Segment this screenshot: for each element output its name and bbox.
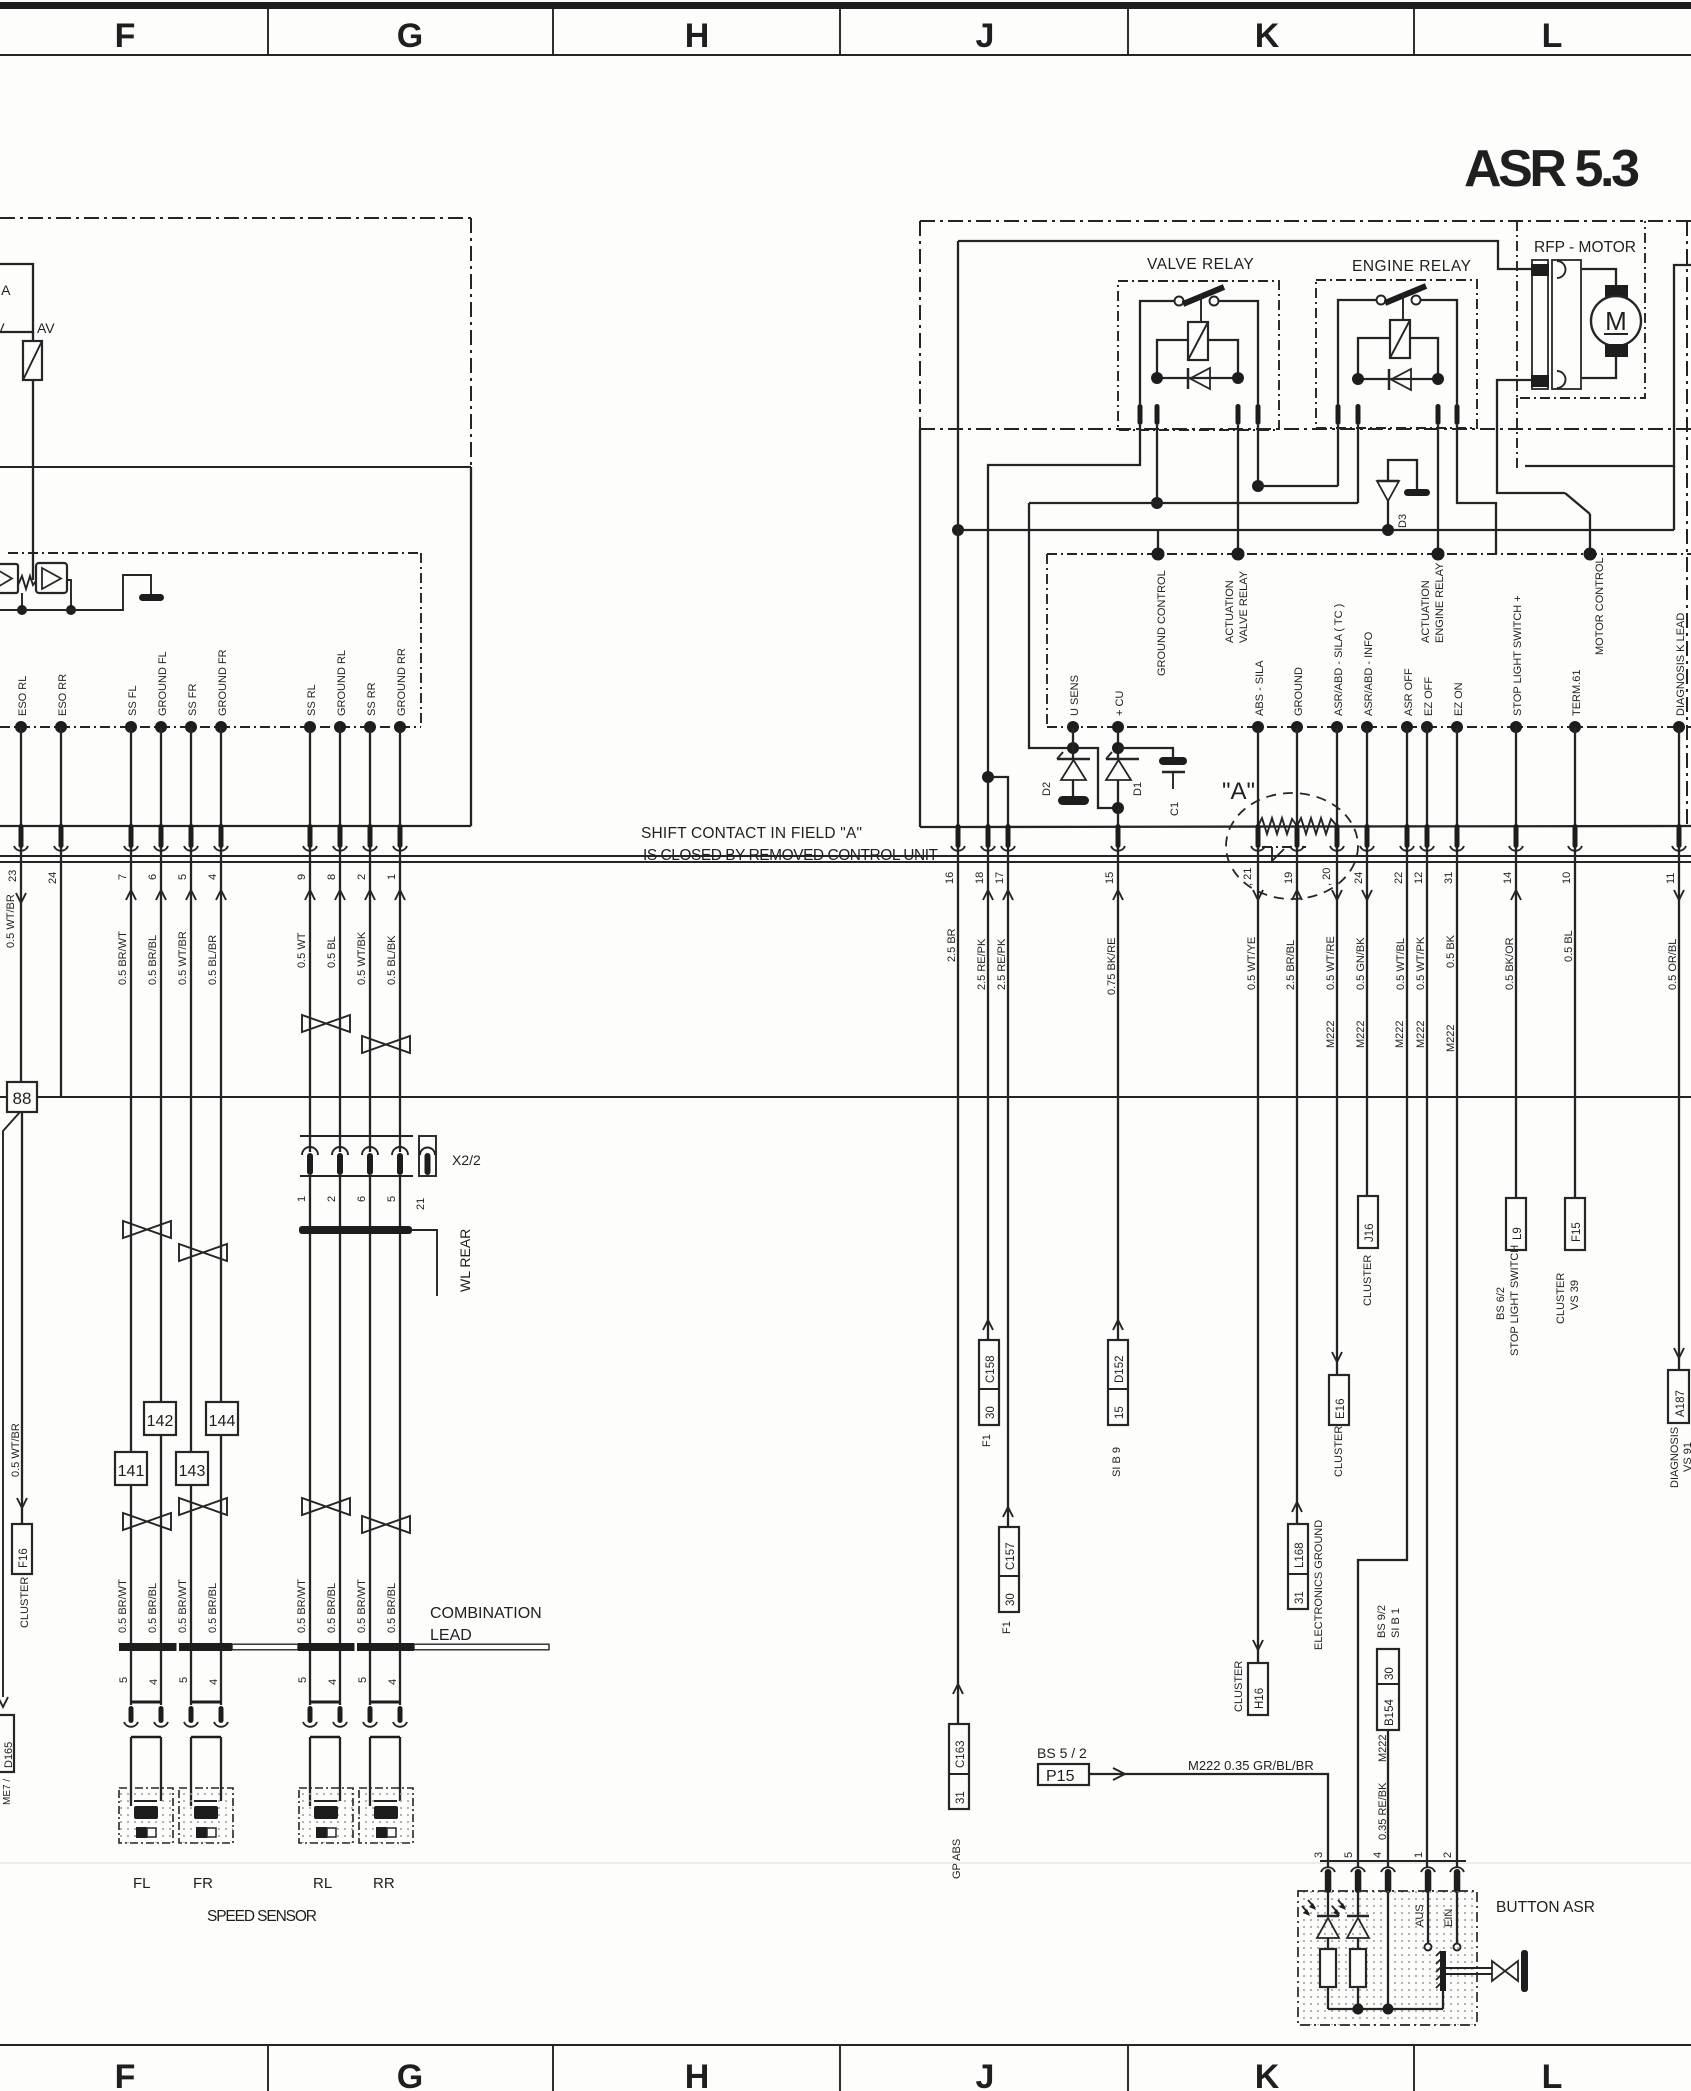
outer dash-dot continuation below RFP: [1516, 398, 1518, 472]
wire 20: [1336, 727, 1338, 848]
connector H16: [1253, 1640, 1263, 1650]
svg-text:15: 15: [1104, 872, 1116, 884]
svg-text:5: 5: [1343, 1852, 1355, 1858]
svg-text:VALVE RELAY: VALVE RELAY: [1238, 570, 1250, 643]
node pins 18/17 join: [982, 771, 994, 783]
connector C157: [1003, 1507, 1013, 1517]
wire to pin 15: [1117, 808, 1119, 848]
svg-text:143: 143: [179, 1463, 206, 1480]
D3 bottom lead: [1387, 501, 1389, 530]
amp1 output lead: [21, 593, 23, 610]
svg-text:C157: C157: [1005, 1543, 1017, 1571]
pin 20: [1335, 824, 1340, 848]
svg-text:0.5 GN/BK: 0.5 GN/BK: [1355, 937, 1367, 990]
engine relay switch contact left: [1377, 296, 1386, 305]
svg-text:0.5 BK: 0.5 BK: [1445, 934, 1457, 968]
amp 2 triangle: [42, 568, 61, 589]
node DIAGNOSIS: [1673, 721, 1685, 733]
node valve-engine link: [1252, 480, 1264, 492]
svg-text:SI B 1: SI B 1: [1390, 1608, 1402, 1638]
node GROUND RR: [394, 721, 406, 733]
wire 24: [60, 727, 62, 848]
valve relay diode line: [1157, 377, 1238, 379]
svg-text:31: 31: [1443, 872, 1455, 884]
svg-text:8: 8: [326, 874, 338, 880]
connector F15: [1565, 1198, 1585, 1250]
wire P15 to button: [1089, 1774, 1328, 1868]
valve pin1 feed: [988, 425, 1140, 848]
motor return wire: [1497, 380, 1565, 493]
wire 6: [160, 727, 162, 848]
connector X2/2 rail bottom: [300, 1175, 413, 1177]
node SS FR: [185, 721, 197, 733]
svg-text:4: 4: [148, 1679, 160, 1685]
node bus supply: [952, 524, 964, 536]
svg-text:CLUSTER: CLUSTER: [1555, 1273, 1567, 1324]
RFP motor dash-dot box: [1517, 221, 1645, 398]
svg-text:5: 5: [386, 1196, 398, 1202]
speed sensor FR: [179, 1788, 233, 1843]
svg-text:F: F: [115, 17, 136, 55]
wire 14: [1515, 727, 1517, 848]
pin 14: [1514, 824, 1519, 848]
wire SI B9 D152: [1117, 848, 1119, 1340]
header grid letters F G H J K L: [115, 17, 1563, 55]
connector X2/2 rail top: [300, 1135, 413, 1137]
svg-text:141: 141: [118, 1463, 145, 1480]
svg-text:SS FR: SS FR: [187, 684, 199, 716]
svg-text:BUTTON ASR: BUTTON ASR: [1496, 1899, 1595, 1916]
pin 11: [1677, 824, 1682, 848]
svg-text:EZ OFF: EZ OFF: [1423, 677, 1435, 716]
wire diagnosis: [1678, 848, 1680, 1369]
svg-text:SS RR: SS RR: [366, 682, 378, 716]
switch toggle bar: [1440, 1951, 1446, 1991]
svg-text:STOP LIGHT SWITCH: STOP LIGHT SWITCH: [1509, 1245, 1521, 1356]
wire motor control to boundary: [1589, 514, 1591, 554]
switch contact AUS: [1425, 1944, 1432, 1951]
engine pin3 wire: [1437, 425, 1439, 554]
svg-text:F15: F15: [1571, 1222, 1583, 1242]
valve relay coil leads: [1157, 340, 1188, 378]
D2 lead to ground: [1072, 780, 1074, 797]
internal ground bar: [139, 594, 164, 601]
node ACTUATION ENGINE RELAY: [1432, 548, 1445, 561]
svg-text:A187: A187: [1675, 1390, 1687, 1417]
engine relay pins: [1336, 404, 1341, 425]
BUTTON ASR housing: [1298, 1891, 1477, 2025]
svg-text:4: 4: [327, 1679, 339, 1685]
footer band top rule: [0, 2044, 1691, 2046]
svg-text:EIN: EIN: [1443, 1909, 1455, 1927]
border frame top thick rule: [0, 2, 1691, 9]
svg-text:2: 2: [356, 874, 368, 880]
button connector rail: [1320, 1860, 1466, 1862]
wire 10: [1574, 727, 1576, 848]
X2/2 pin numbers: [296, 1196, 427, 1210]
U SENS stub: [1072, 727, 1074, 759]
svg-text:SS RL: SS RL: [306, 684, 318, 716]
WL REAR lead: [412, 1230, 437, 1296]
button socket arcs: [1321, 1867, 1464, 1872]
X2/2 socket arcs: [302, 1147, 408, 1155]
svg-text:WL REAR: WL REAR: [457, 1229, 473, 1292]
combination lead open sleeve 2: [414, 1644, 549, 1650]
connector L9: [1506, 1198, 1526, 1250]
motor M1 top lead: [1581, 269, 1616, 286]
ground control branch down: [1029, 503, 1118, 808]
RFP connector pad bottom: [1531, 375, 1549, 387]
svg-text:K: K: [1255, 2058, 1280, 2091]
long horizontal bus line: [0, 1096, 1691, 1098]
svg-text:88: 88: [13, 1089, 32, 1108]
svg-text:2: 2: [1442, 1852, 1454, 1858]
node bus supply pin4: [1383, 2004, 1394, 2015]
svg-text:0.5 WT/BR: 0.5 WT/BR: [5, 894, 17, 948]
svg-text:ME7 /: ME7 /: [2, 1779, 13, 1805]
push knob bar: [1521, 1950, 1528, 1992]
svg-text:GP ABS: GP ABS: [951, 1839, 963, 1879]
svg-text:0.5 WT/BR: 0.5 WT/BR: [177, 931, 189, 985]
svg-text:0.5 BR/BL: 0.5 BR/BL: [207, 1583, 219, 1633]
svg-text:HA: HA: [0, 282, 11, 298]
svg-text:11: 11: [1665, 873, 1677, 884]
svg-text:K: K: [1255, 17, 1280, 55]
wire F1 C158: [987, 848, 989, 1340]
svg-text:J: J: [976, 17, 995, 55]
wires pin dots to connector: [21, 727, 400, 848]
pin 10: [1573, 824, 1578, 848]
twisted pair mark RL upper: [302, 1015, 350, 1032]
wire 88 to F16: [21, 1112, 23, 1524]
outer dash-dot top edge: [920, 220, 1691, 222]
connector A187: [1674, 1348, 1684, 1358]
speed sensor FL: [119, 1788, 173, 1843]
terminal 88 box: [7, 1082, 37, 1112]
svg-text:E16: E16: [1335, 1399, 1347, 1419]
pin 5: [189, 824, 194, 848]
node GROUND: [1291, 721, 1303, 733]
svg-text:D2: D2: [1041, 782, 1053, 796]
svg-text:4: 4: [207, 874, 219, 880]
svg-text:P15: P15: [1046, 1768, 1075, 1785]
svg-text:1: 1: [386, 874, 398, 880]
svg-text:GROUND CONTROL: GROUND CONTROL: [1156, 570, 1168, 676]
svg-text:30: 30: [1005, 1593, 1017, 1606]
svg-text:0.5 WT/BL: 0.5 WT/BL: [1395, 938, 1407, 990]
svg-text:SPEED SENSOR: SPEED SENSOR: [207, 1908, 317, 1925]
node bus R2: [1353, 2004, 1364, 2015]
svg-text:0.5 WT: 0.5 WT: [296, 932, 308, 968]
wire 24 stub: [60, 848, 62, 1097]
svg-text:COMBINATION: COMBINATION: [430, 1605, 542, 1622]
header band bottom rule: [0, 54, 1691, 56]
svg-text:0.75 BK/RE: 0.75 BK/RE: [1106, 938, 1118, 995]
supply wire to pin 16: [957, 241, 959, 848]
shift contact plunger: [1262, 846, 1306, 848]
capacitor C1 feed: [1118, 748, 1173, 758]
AV valve component: [23, 341, 42, 380]
wires into sensors: [131, 1737, 400, 1806]
inner dash-dot vertical corner: [420, 553, 422, 727]
branch diagonal from 88: [3, 1112, 20, 1697]
svg-text:0.5 BR/WT: 0.5 BR/WT: [177, 1579, 189, 1633]
engine relay switch blade: [1385, 286, 1426, 303]
svg-text:VS 91: VS 91: [1682, 1442, 1691, 1472]
svg-text:23: 23: [7, 870, 19, 882]
pin 9: [308, 824, 313, 848]
main bus wire y530: [958, 529, 1674, 531]
svg-text:31: 31: [955, 1791, 967, 1804]
motor M1 terminal bottom: [1605, 344, 1628, 357]
inner dash-dot pin line: [1047, 726, 1691, 728]
supply line to RFP: [958, 241, 1532, 269]
splice 142: [144, 1402, 176, 1435]
node D3 bus: [1382, 524, 1394, 536]
sensor box A (cut at page edge): [0, 264, 33, 332]
svg-text:CLUSTER: CLUSTER: [1362, 1255, 1374, 1306]
node ABS-SILA: [1252, 721, 1264, 733]
right wire colour labels: [946, 928, 1679, 995]
outer dash-dot left edge: [919, 221, 921, 429]
outer dash-dot right edge: [1686, 221, 1688, 826]
wire TERM61: [1574, 848, 1576, 1198]
node ASR/ABD-SILA: [1331, 721, 1343, 733]
pin 18: [986, 824, 991, 848]
left pin net dots on dash-dot line: [15, 721, 406, 733]
engine pin1 wire: [1337, 425, 1339, 486]
cluster F16 box: [12, 1524, 32, 1574]
svg-text:H16: H16: [1254, 1688, 1266, 1709]
connector L168: [1292, 1502, 1302, 1512]
svg-text:ESO RR: ESO RR: [57, 674, 69, 716]
wire 0.5 WT RL: [309, 848, 311, 1152]
node ACTUATION VALVE RELAY: [1232, 548, 1245, 561]
pin 17: [1006, 824, 1011, 848]
left boundary wire solid: [919, 429, 921, 827]
diode D3 top lead to ground: [1388, 460, 1417, 490]
svg-text:FR: FR: [193, 1875, 213, 1892]
upper tier labels: [1156, 557, 1606, 676]
svg-text:D1: D1: [1132, 782, 1144, 796]
capacitor C1: [1159, 757, 1187, 765]
resistor R2: [1350, 1949, 1366, 1987]
wire 19: [1296, 727, 1298, 848]
svg-text:DIAGNOSIS K LEAD: DIAGNOSIS K LEAD: [1675, 613, 1687, 716]
svg-text:, 21: , 21: [1242, 868, 1254, 886]
node ESO RL: [15, 721, 27, 733]
svg-text:0.5 WT/YE: 0.5 WT/YE: [1246, 937, 1258, 990]
svg-text:12: 12: [1413, 872, 1425, 884]
pin 15: [1116, 824, 1121, 848]
node amp2: [66, 605, 76, 615]
control unit solid box bottom edge: [0, 825, 471, 827]
svg-text:0.5 BL/BR: 0.5 BL/BR: [207, 935, 219, 985]
svg-text:30: 30: [985, 1406, 997, 1419]
svg-text:G: G: [397, 2058, 423, 2091]
wire F1 C157: [1007, 848, 1009, 1527]
svg-text:L: L: [1542, 2058, 1563, 2091]
control unit solid box right edge: [470, 467, 472, 826]
wires into button: [1328, 1892, 1457, 2009]
pin 6: [159, 824, 164, 848]
svg-text:ASR/ABD - INFO: ASR/ABD - INFO: [1363, 631, 1375, 716]
svg-text:AV: AV: [37, 320, 55, 336]
RFP connector body left: [1532, 260, 1548, 389]
svg-text:17: 17: [994, 872, 1006, 884]
pin 22: [1405, 824, 1410, 848]
svg-text:F1: F1: [981, 1434, 993, 1447]
control unit outer dash-dot box top edge: [0, 217, 471, 219]
amp2 output lead: [67, 580, 71, 610]
right pin numbers: [944, 868, 1677, 886]
wire 21: [1257, 727, 1259, 848]
svg-text:ASR/ABD - SILA ( TC ): ASR/ABD - SILA ( TC ): [1333, 604, 1345, 716]
wires combination lead to sensor connectors: [131, 1651, 400, 1705]
wire electronics ground: [1296, 848, 1298, 1524]
zigzag link: [18, 576, 36, 589]
pin 24: [59, 824, 64, 848]
engine pin2 wire: [1357, 425, 1359, 503]
splice 141: [115, 1452, 147, 1485]
valve relay switch wires: [1140, 301, 1175, 404]
button internal bus: [1328, 2008, 1443, 2010]
svg-text:EZ ON: EZ ON: [1453, 682, 1465, 716]
faint scan artifact line: [0, 1862, 1691, 1864]
motor M1 body: [1591, 296, 1641, 346]
wire 2: [369, 727, 371, 848]
node TERM.61: [1569, 721, 1581, 733]
svg-text:0.5 BL: 0.5 BL: [1563, 930, 1575, 962]
combination lead shield bar right: [298, 1643, 414, 1651]
svg-text:22: 22: [1393, 872, 1405, 884]
pin 31: [1455, 824, 1460, 848]
+CU stub: [1117, 727, 1119, 759]
pin 24r: [1365, 824, 1370, 848]
wire cluster J16: [1366, 848, 1368, 1196]
bus corner up at right: [1673, 466, 1675, 530]
RFP connector pad top: [1531, 264, 1549, 276]
arrows up sensor wires: [126, 890, 405, 900]
wire B154 to button: [1387, 1730, 1389, 1868]
svg-text:0.5 BR/WT: 0.5 BR/WT: [117, 1579, 129, 1633]
wire 5: [190, 727, 192, 848]
svg-text:ENGINE RELAY: ENGINE RELAY: [1434, 562, 1446, 643]
node U SENS: [1067, 721, 1079, 733]
svg-text:0.5 BR/WT: 0.5 BR/WT: [356, 1579, 368, 1633]
wire 0.5 WT/BK RR: [369, 848, 371, 1152]
svg-text:M222: M222: [1355, 1020, 1367, 1048]
svg-text:M222 0.35 GR/BL/BR: M222 0.35 GR/BL/BR: [1188, 1758, 1314, 1773]
engine relay coil leads: [1358, 338, 1390, 379]
svg-text:D152: D152: [1114, 1356, 1126, 1384]
svg-text:VS 39: VS 39: [1569, 1280, 1581, 1310]
svg-text:4: 4: [1372, 1852, 1384, 1858]
link wire y486: [1258, 485, 1338, 487]
pin 19: [1295, 824, 1300, 848]
svg-text:7: 7: [117, 874, 129, 880]
node +CU tap: [1112, 742, 1124, 754]
svg-text:FL: FL: [133, 1875, 151, 1892]
wire 1: [399, 727, 401, 848]
node MOTOR CONTROL: [1584, 548, 1597, 561]
svg-text:0.5 BR/BL: 0.5 BR/BL: [147, 1583, 159, 1633]
motor M1 terminal top: [1605, 285, 1628, 298]
svg-text:0.5 WT/PK: 0.5 WT/PK: [1415, 936, 1427, 990]
node ESO RR: [55, 721, 67, 733]
wire 24r: [1366, 727, 1368, 848]
pin 2: [368, 824, 373, 848]
node SS RL: [304, 721, 316, 733]
svg-text:F16: F16: [18, 1548, 30, 1568]
control unit solid box top edge: [0, 466, 471, 468]
svg-text:0.5 BR/BL: 0.5 BR/BL: [386, 1583, 398, 1633]
svg-text:0.5 BR/WT: 0.5 BR/WT: [296, 1579, 308, 1633]
svg-text:0.5 BL: 0.5 BL: [326, 936, 338, 968]
wire 0.5 BR/WT FL: [130, 848, 132, 1643]
dash-dot mid horizontal: [920, 428, 1691, 430]
svg-text:2.5 RE/PK: 2.5 RE/PK: [996, 938, 1008, 990]
svg-text:BS 9/2: BS 9/2: [1376, 1605, 1388, 1638]
svg-text:144: 144: [209, 1413, 236, 1430]
left wire colour labels: [5, 894, 398, 985]
wire EZ ON to button: [1456, 848, 1458, 1868]
svg-text:0.5 BR/BL: 0.5 BR/BL: [147, 935, 159, 985]
coil control bus y503: [1029, 502, 1358, 504]
motor M1 bottom lead: [1581, 357, 1616, 378]
svg-text:M222: M222: [1415, 1020, 1427, 1048]
D1 lead: [1117, 780, 1119, 808]
wire 22: [1406, 727, 1408, 848]
diode D1: [1106, 758, 1139, 761]
svg-text:31: 31: [1294, 1591, 1306, 1604]
svg-text:0.5 WT/RE: 0.5 WT/RE: [1325, 936, 1337, 990]
valve relay pins: [1138, 404, 1143, 425]
shift contact spring 19-20: [1297, 818, 1337, 834]
twisted pair mark FR low: [179, 1498, 227, 1515]
svg-text:F: F: [115, 2058, 136, 2091]
switch contact EIN: [1454, 1944, 1461, 1951]
node SS RR: [364, 721, 376, 733]
connector ME7 D165 box (clipped): [0, 1715, 14, 1772]
header cell separators: [267, 9, 269, 55]
node amp1: [17, 605, 27, 615]
wire 4: [220, 727, 222, 848]
valve relay coil: [1188, 322, 1208, 360]
svg-text:ENGINE RELAY: ENGINE RELAY: [1352, 258, 1471, 275]
svg-text:H: H: [685, 2058, 710, 2091]
node +CU: [1112, 721, 1124, 733]
svg-text:3: 3: [1313, 1852, 1325, 1858]
toggle riser: [1442, 1991, 1444, 2009]
valve relay switch contact left: [1175, 297, 1184, 306]
arrow down wire 23: [16, 893, 26, 903]
pin 7: [129, 824, 134, 848]
connector E16: [1332, 1352, 1342, 1362]
node GROUND FR: [215, 721, 227, 733]
valve pin3 wire: [1237, 425, 1239, 554]
combination lead shield bar left: [119, 1643, 232, 1651]
lower wire colour labels: [117, 1579, 398, 1633]
twisted pair mark RL low: [302, 1498, 350, 1515]
svg-text:ASR 5.3: ASR 5.3: [1464, 140, 1640, 198]
twisted pair mark FL mid: [123, 1221, 171, 1238]
wires X2/2 down: [310, 1176, 400, 1643]
inner dash-dot left corner: [1046, 554, 1048, 727]
svg-text:D3: D3: [1397, 514, 1409, 528]
LED 1: [1317, 1915, 1339, 1918]
wire cluster H16: [1257, 848, 1259, 1663]
